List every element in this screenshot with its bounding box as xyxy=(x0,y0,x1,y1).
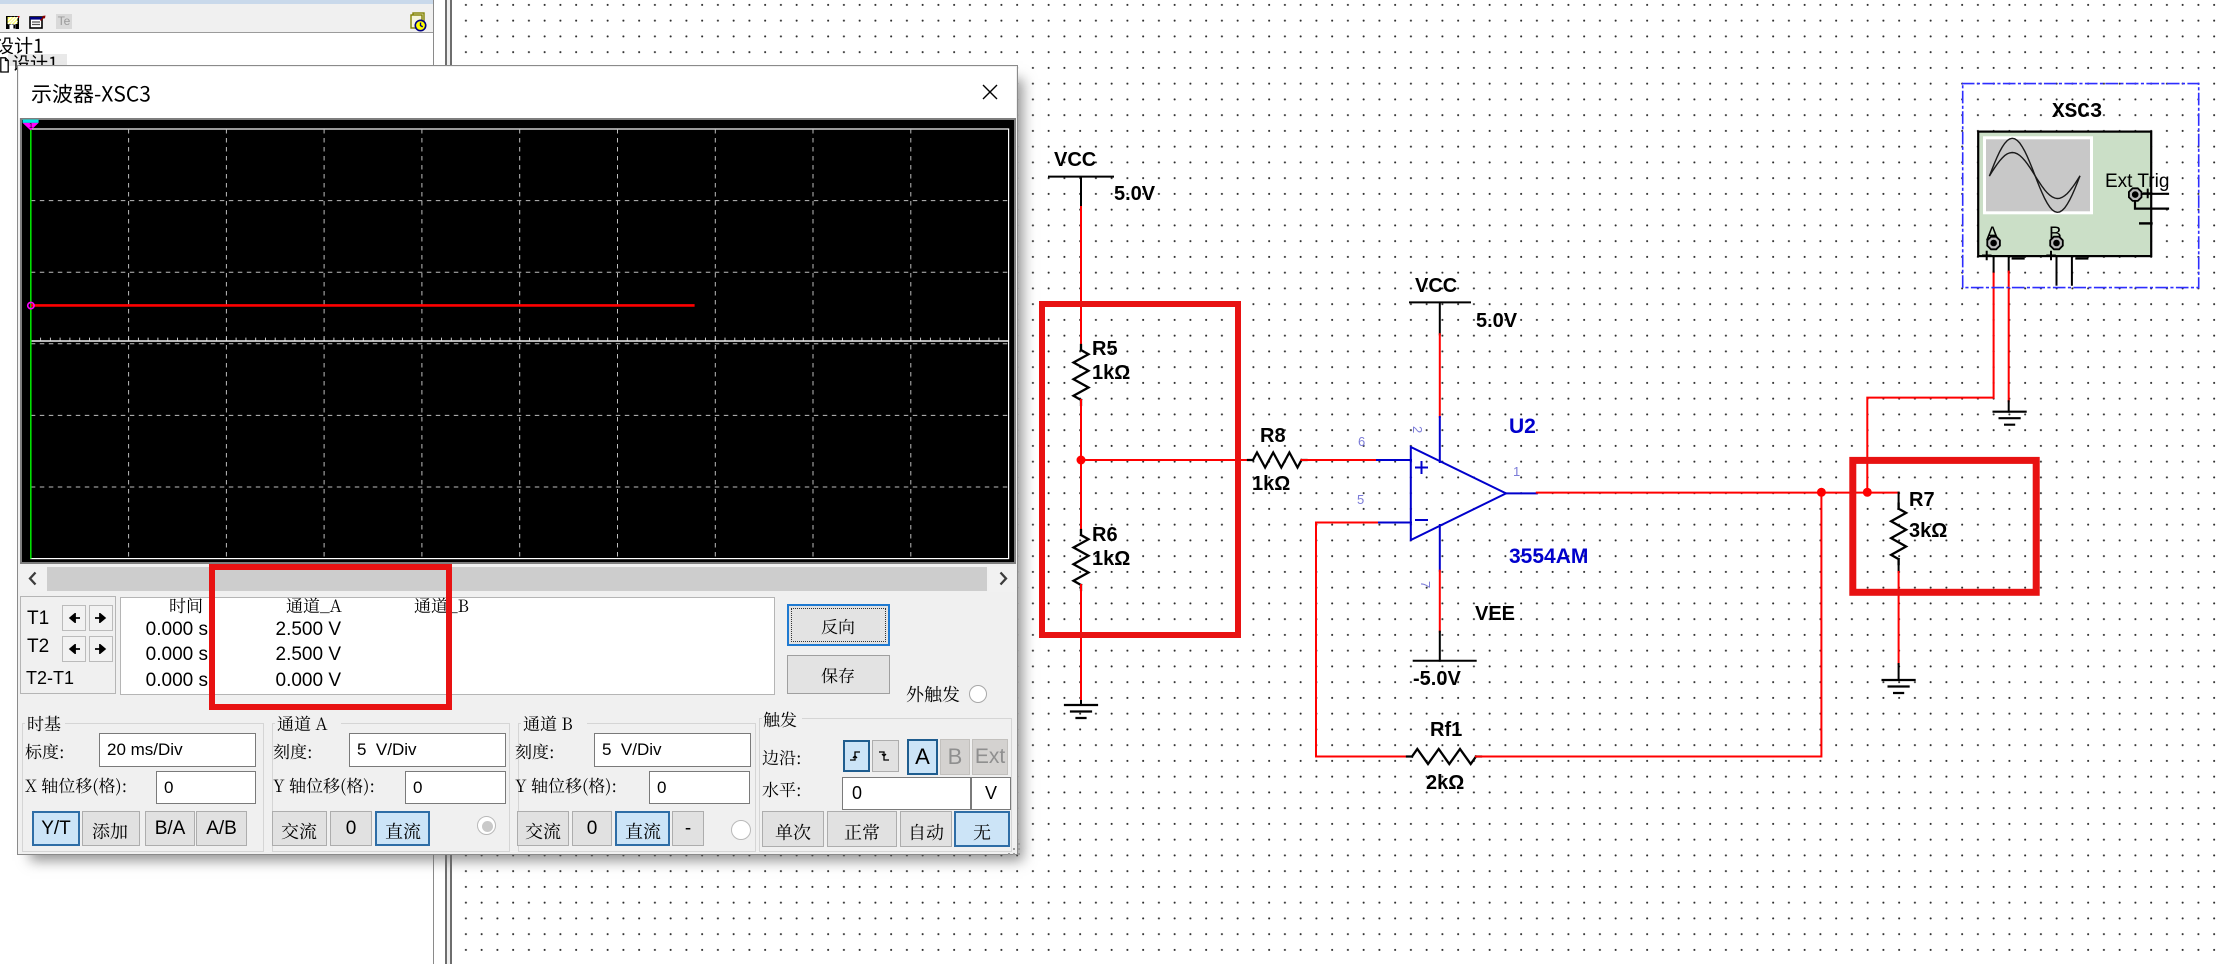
label R8 xyxy=(1260,425,1286,447)
group 触发 xyxy=(759,718,1012,852)
annotation red box (R5/R6 divider) xyxy=(1042,304,1238,635)
resistor R5 xyxy=(1074,345,1089,405)
toolbar pages+clock icon xyxy=(409,12,428,32)
svg-text:5.0V: 5.0V xyxy=(1476,310,1518,332)
svg-text:R8: R8 xyxy=(1260,425,1286,447)
wire VCC to pin2 xyxy=(1439,334,1441,462)
label 5.0V op-amp xyxy=(1476,310,1518,332)
value 3kΩ (R7) xyxy=(1909,520,1947,542)
resistor R7 xyxy=(1891,504,1906,564)
selection box XSC3 xyxy=(1963,84,2199,288)
svg-text:-5.0V: -5.0V xyxy=(1413,668,1461,690)
toolbar new-window icon xyxy=(29,14,47,30)
scope screen xyxy=(18,66,1017,856)
label -5.0V xyxy=(1413,668,1461,690)
wire R7 to ground xyxy=(1898,559,1900,680)
pin 6 label xyxy=(1358,434,1365,449)
label VCC xyxy=(1054,149,1096,171)
svg-text:1kΩ: 1kΩ xyxy=(1092,548,1130,570)
toolbar Te icon (disabled) xyxy=(56,14,72,29)
value 1kΩ (R6) xyxy=(1092,548,1130,570)
wire pin7 to VEE xyxy=(1439,525,1441,661)
svg-text:Rf1: Rf1 xyxy=(1430,719,1462,741)
wire node to R6 xyxy=(1080,460,1082,535)
schematic canvas dot grid xyxy=(452,0,2217,964)
label VEE xyxy=(1475,603,1515,625)
svg-text:3554AM: 3554AM xyxy=(1509,545,1588,568)
ground (R7) xyxy=(1883,680,1915,693)
wire op-amp output xyxy=(1506,492,1899,495)
label 5.0V xyxy=(1114,183,1156,205)
svg-text:2kΩ: 2kΩ xyxy=(1426,772,1464,794)
power VCC (op-amp) xyxy=(1410,302,1470,334)
label R6 xyxy=(1092,524,1118,546)
ground (scope) xyxy=(1994,412,2026,425)
label VCC op-amp xyxy=(1415,275,1457,297)
svg-text:1kΩ: 1kΩ xyxy=(1252,473,1290,495)
resistor R8 xyxy=(1248,453,1307,468)
pin 5 label xyxy=(1357,492,1364,507)
pane splitter xyxy=(433,0,434,964)
svg-text:U2: U2 xyxy=(1509,415,1536,438)
svg-text:R6: R6 xyxy=(1092,524,1118,546)
svg-text:7: 7 xyxy=(1418,581,1433,588)
pin 1 label xyxy=(1513,464,1520,479)
value 1kΩ (R5) xyxy=(1092,362,1130,384)
label R5 xyxy=(1092,338,1118,360)
oscilloscope dialog XSC3 xyxy=(17,65,1018,855)
svg-text:5.0V: 5.0V xyxy=(1114,183,1156,205)
wire Rf1 to output node xyxy=(1476,492,1821,756)
junction node divider xyxy=(1077,456,1086,465)
junction output/scope xyxy=(1863,488,1872,497)
wire pin5 inverting input xyxy=(1316,522,1411,524)
svg-text:1: 1 xyxy=(1513,464,1520,479)
label Ext Trig xyxy=(2105,171,2169,192)
svg-text:VEE: VEE xyxy=(1475,603,1515,625)
svg-text:VCC: VCC xyxy=(1415,275,1457,297)
svg-text:2: 2 xyxy=(1410,426,1425,433)
svg-text:6: 6 xyxy=(1358,434,1365,449)
svg-text:5: 5 xyxy=(1357,492,1364,507)
value 1kΩ (R8) xyxy=(1252,473,1290,495)
wire node to R8 xyxy=(1081,459,1253,461)
wire R5 to node xyxy=(1080,400,1082,460)
annotation red box (measurements) xyxy=(209,564,452,710)
wire R8 to op-amp xyxy=(1302,459,1412,461)
svg-text:1: 1 xyxy=(29,123,33,130)
group 通道A xyxy=(272,723,510,852)
annotation red box (R7) xyxy=(1853,460,2036,592)
resistor R6 xyxy=(1074,530,1089,590)
label U2 xyxy=(1509,415,1536,438)
wire R6 to ground xyxy=(1080,585,1082,705)
power VEE xyxy=(1414,660,1476,662)
wire scope B+ stub xyxy=(2056,250,2058,285)
power VCC (divider) xyxy=(1049,177,1113,208)
op-amp U2 (3554AM) xyxy=(1411,447,1506,540)
group 时基 xyxy=(22,723,264,852)
label 3554AM xyxy=(1509,545,1588,568)
label Rf1 xyxy=(1430,719,1462,741)
wire feedback bottom to Rf1 xyxy=(1316,756,1412,758)
tree row 设计1 xyxy=(0,34,46,57)
label XSC3 xyxy=(2052,101,2102,124)
svg-text:R7: R7 xyxy=(1909,489,1935,511)
junction output/feedback xyxy=(1817,488,1826,497)
terminal B xyxy=(2047,224,2087,259)
left pane background xyxy=(0,0,434,964)
wire scope A+ to output node xyxy=(1867,250,1993,492)
toolbar save icon xyxy=(5,15,21,31)
terminal Ext Trig xyxy=(2129,188,2168,223)
svg-text:R5: R5 xyxy=(1092,338,1118,360)
svg-text:XSC3: XSC3 xyxy=(2052,101,2102,124)
resistor Rf1 xyxy=(1407,749,1481,764)
wire feedback left vertical xyxy=(1315,523,1317,757)
wire VCC to R5 xyxy=(1080,207,1082,350)
svg-text:3kΩ: 3kΩ xyxy=(1909,520,1947,542)
value 2kΩ (Rf1) xyxy=(1426,772,1464,794)
terminal A xyxy=(1983,224,2024,259)
ground (divider) xyxy=(1065,705,1097,718)
svg-text:1kΩ: 1kΩ xyxy=(1092,362,1130,384)
wire scope B- stub xyxy=(2064,243,2072,285)
resistor R7 lead top xyxy=(1898,493,1900,509)
pin 7 label xyxy=(1418,581,1433,588)
group 通道B xyxy=(518,723,756,852)
svg-text:VCC: VCC xyxy=(1054,149,1096,171)
oscilloscope XSC3 instrument xyxy=(1978,132,2151,257)
pin 2 label xyxy=(1410,426,1425,433)
wire scope A- to ground xyxy=(2001,243,2009,412)
label R7 xyxy=(1909,489,1935,511)
